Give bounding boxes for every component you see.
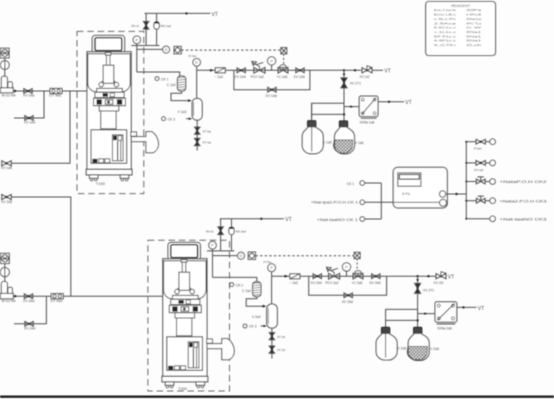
- svg-text:VT: VT: [405, 100, 411, 106]
- svg-text:C 1a2: C 1a2: [167, 83, 176, 87]
- vessel T200 mount ring: [175, 288, 195, 294]
- hand valve: [476, 179, 485, 184]
- valve XV2A8 bypass: [344, 293, 352, 298]
- pipe gauge drop to pot: [196, 66, 198, 98]
- pipe: [271, 340, 273, 346]
- flow meter FI202: [290, 274, 300, 279]
- terminal CK3 tap 2: [243, 324, 247, 328]
- svg-text:CK 1: CK 1: [236, 283, 244, 287]
- control valve C105 with actuator: [278, 68, 288, 74]
- pipe branch to flask V105: [312, 103, 344, 118]
- node vent header: [185, 12, 187, 14]
- svg-text:PCV 1a2: PCV 1a2: [251, 75, 265, 79]
- gauge PI202 on stem: [346, 271, 348, 276]
- svg-text:+Nat-tpa2-P.O.H CK 1: +Nat-tpa2-P.O.H CK 1: [311, 201, 358, 205]
- svg-text:XT Na: XT Na: [203, 129, 212, 133]
- svg-text:VT: VT: [285, 217, 291, 223]
- svg-text:P: P: [345, 264, 348, 269]
- pipe pot drain 2: [271, 328, 273, 332]
- pump P100: [0, 76, 13, 93]
- vessel T100 lower column: [99, 106, 119, 129]
- vessel T200 cabinet: [167, 337, 203, 371]
- vessel T200 lower column: [175, 313, 195, 336]
- rupture disc RD200: [229, 227, 234, 234]
- pipe drop from row2: [417, 276, 419, 283]
- pipe drop continues 2: [417, 294, 419, 328]
- vessel T100 cabinet: [91, 130, 127, 164]
- converter square PY200: [248, 252, 255, 259]
- node: [388, 101, 390, 103]
- pipe drain branch: [14, 91, 44, 118]
- pipe bypass loop: [234, 70, 310, 89]
- valve XV1A6: [296, 68, 304, 73]
- hose connector HC2: [51, 294, 63, 299]
- valve XT1B (lower): [195, 138, 200, 145]
- valve XT1A (upper): [195, 127, 200, 134]
- terminal CK1c: [360, 217, 365, 222]
- svg-text:CK 3: CK 3: [168, 117, 176, 121]
- terminal: [490, 216, 496, 222]
- transmitter PT100: [163, 46, 170, 53]
- svg-text:T200: T200: [178, 386, 188, 391]
- signal line (dashed) to PCV pilot: [181, 49, 280, 51]
- svg-text:FI Sw: FI Sw: [264, 260, 273, 264]
- svg-text:FI Sw: FI Sw: [189, 54, 198, 58]
- pipe to damper column 2: [213, 277, 257, 281]
- pipe flask manifold 2: [386, 319, 418, 321]
- svg-text:XT 2A: XT 2A: [277, 348, 285, 352]
- signal line (dashed) pilot drop 2: [356, 259, 358, 270]
- svg-text:+Nat-taaNO CK 1: +Nat-taaNO CK 1: [317, 218, 358, 222]
- vessel T200 stirrer shaft: [179, 260, 190, 291]
- svg-text:4L.cC.P.B.c: 4L.cC.P.B.c: [434, 43, 457, 47]
- pressure gauge PI2a: [0, 268, 9, 277]
- svg-text:V 2a6: V 2a6: [430, 347, 439, 351]
- panel port lower: [440, 199, 447, 206]
- node panel wire: [455, 193, 457, 195]
- vessel T200 body: [163, 259, 207, 377]
- gauge PI203: [268, 264, 276, 272]
- svg-text:XV 1a5: XV 1a5: [1, 166, 12, 170]
- vessel top platform: [131, 45, 159, 47]
- sampler unit ZI200: [435, 302, 457, 324]
- svg-text:T100: T100: [96, 181, 106, 186]
- svg-text:XV 2A4: XV 2A4: [24, 327, 35, 331]
- pipe riser to rupture disc: [156, 13, 158, 21]
- valve XV2A4: [313, 274, 321, 279]
- svg-text:XV 1A6: XV 1A6: [294, 75, 305, 79]
- flask V205: [376, 327, 397, 360]
- terminal CK1 tap: [155, 77, 159, 81]
- node vent header 2: [260, 218, 262, 220]
- terminal CK1b: [360, 200, 365, 205]
- flow arrow row2: [285, 275, 289, 278]
- pipe from XV2A5 down to T200 feed: [11, 197, 71, 296]
- vessel2 top platform: [207, 250, 234, 252]
- svg-text:V 2a5: V 2a5: [398, 347, 407, 351]
- pipe branch to sampler: [344, 106, 359, 108]
- valve XV1T1: [341, 78, 347, 88]
- svg-text:P: P: [135, 37, 138, 42]
- vessel T100 lower flange: [94, 98, 126, 106]
- pipe drain branch 2: [14, 296, 46, 324]
- gas line at y=162.9: [465, 162, 467, 164]
- vessel T200 exhaust duct: [207, 339, 235, 360]
- relief valve RV-2T: [218, 227, 223, 235]
- svg-text:RD 1a0: RD 1a0: [161, 24, 172, 28]
- terminal CK1a: [360, 181, 365, 186]
- svg-text:G: G: [239, 253, 242, 258]
- pilot square PY202: [354, 252, 360, 258]
- pipe sampler vent: [378, 101, 404, 103]
- node row1 branch: [343, 69, 345, 71]
- pipe sampler vent 2: [457, 306, 477, 308]
- svg-text:CK 3: CK 3: [249, 325, 257, 329]
- pipe drain end 2: [271, 353, 273, 358]
- svg-text:XV 2A8: XV 2A8: [342, 300, 353, 304]
- pressure regulator PR1 (square with circle): [1, 48, 10, 58]
- pipe riser 2: [231, 219, 233, 227]
- flow arrow into V103: [188, 99, 192, 102]
- vessel T200 flange stack: [171, 295, 200, 304]
- svg-text:CK 1: CK 1: [161, 77, 169, 81]
- node feed junction: [14, 90, 16, 92]
- pipe pot drain: [196, 120, 198, 127]
- pipe feed line to T200: [13, 295, 163, 297]
- gas bus vertical: [465, 142, 467, 219]
- valve XV1A5 (left edge upper): [2, 161, 12, 166]
- svg-text:XV 1t2: XV 1t2: [360, 75, 370, 79]
- pipe riser: [220, 219, 222, 227]
- svg-text:W-GJ NA: W-GJ NA: [2, 299, 17, 303]
- gas line at y=200.7: [465, 200, 467, 202]
- pipe: [196, 134, 198, 138]
- pressure sensor PI200: [209, 241, 217, 249]
- regulator PCV202 with lever: [329, 273, 340, 279]
- signal line (dashed) pilot drop: [283, 54, 285, 66]
- gas line at y=218.8: [465, 218, 467, 220]
- enclosure T100 (dashed boundary): [77, 31, 144, 193]
- wire panel to gas bus: [446, 193, 467, 195]
- svg-text:XV 2A4: XV 2A4: [311, 281, 322, 285]
- svg-text:VT: VT: [212, 12, 218, 18]
- terminal: [490, 198, 496, 204]
- pipe vent header T100: [145, 12, 211, 14]
- flow arrow into pot side: [189, 117, 192, 120]
- flask V206 (desiccant): [407, 327, 429, 360]
- pipe: [220, 235, 222, 251]
- svg-text:XV ta2: XV ta2: [474, 168, 484, 172]
- pipe: [231, 235, 233, 251]
- node flask branch 2: [416, 319, 418, 321]
- pipe vent header T200: [220, 218, 284, 220]
- pipe to VT 2: [445, 275, 448, 277]
- svg-text:XI/Na 2a6: XI/Na 2a6: [437, 326, 452, 330]
- pulse damper column C202: [253, 282, 261, 297]
- vessel T200 display screen: [168, 242, 200, 260]
- valve XV2T1: [415, 283, 421, 293]
- svg-text:C/T Na1: C/T Na1: [49, 94, 62, 98]
- flow arrow down: [343, 74, 346, 77]
- regulator PCV102 with lever: [254, 67, 265, 73]
- svg-text:XT Na: XT Na: [203, 141, 212, 145]
- svg-text:VT: VT: [478, 306, 484, 312]
- vessel T100 stirrer shaft: [103, 53, 114, 84]
- valve XV ta2: [476, 161, 485, 166]
- vessel T100 flange stack: [95, 88, 124, 97]
- node: [14, 295, 16, 297]
- hose connector HC1: [50, 88, 62, 93]
- pressure gauge PI1a: [0, 61, 9, 70]
- pipe to vent valve: [344, 69, 361, 71]
- valve XV1A8 bypass: [268, 87, 276, 92]
- wire CK1b inside panel: [393, 201, 439, 203]
- svg-text:XV 2a5: XV 2a5: [1, 200, 12, 204]
- pipe instrument drop 2: [212, 249, 214, 277]
- converter square PY100: [174, 46, 181, 53]
- svg-text:V 1a5: V 1a5: [323, 141, 332, 145]
- pipe drop from row1: [343, 70, 345, 77]
- valve XV1A3: [25, 116, 33, 121]
- pilot square PY102: [281, 48, 287, 54]
- svg-text:XV 1T1: XV 1T1: [350, 82, 361, 86]
- pipe flask manifold: [312, 113, 344, 115]
- svg-text:XV 2t2: XV 2t2: [434, 281, 444, 285]
- svg-text:VT: VT: [384, 69, 390, 75]
- flask V106 (desiccant): [333, 121, 354, 154]
- svg-text:P: P: [211, 243, 214, 248]
- svg-text:2Lcb: 2Lcb: [466, 43, 482, 47]
- svg-text:+C 1a5: +C 1a5: [277, 75, 288, 79]
- flow arrow down 2: [416, 279, 419, 282]
- transmitter PT200: [238, 252, 245, 259]
- pressure regulator PR2: [1, 253, 10, 263]
- svg-text:V 2a4: V 2a4: [252, 315, 261, 319]
- flow arrow into V204: [263, 305, 267, 308]
- node row2 branch: [416, 275, 418, 277]
- svg-text:C/T Na2: C/T Na2: [50, 299, 63, 303]
- node: [354, 69, 356, 71]
- terminal: [490, 179, 496, 185]
- svg-text:XT 2A: XT 2A: [277, 335, 285, 339]
- svg-text:V 1a3: V 1a3: [178, 110, 187, 114]
- pipe riser to relief valve: [145, 13, 147, 21]
- panel port upper: [439, 191, 445, 197]
- valve XV2A5 (left edge lower): [2, 194, 12, 199]
- flow arrow into pot side 2: [263, 325, 266, 328]
- svg-text:G: G: [165, 47, 168, 52]
- knock-out pot V204: [267, 304, 278, 328]
- svg-text:VT: VT: [448, 275, 454, 281]
- node: [427, 275, 429, 277]
- svg-text:P: P: [270, 58, 273, 63]
- flow arrow to sampler 2: [424, 312, 427, 315]
- valve XT2A: [269, 333, 274, 340]
- svg-text:PCV 2a2: PCV 2a2: [325, 281, 339, 285]
- svg-text:+NataP.O.H CK2: +NataP.O.H CK2: [500, 180, 547, 184]
- svg-text:+Nat-taaNO CK3: +Nat-taaNO CK3: [500, 217, 547, 221]
- pipe drop continues: [343, 89, 345, 123]
- pipe: [4, 264, 6, 282]
- terminal CK3 tap: [162, 117, 166, 121]
- valve XV1A1: [24, 89, 32, 94]
- pipe damper outlet: [171, 91, 189, 101]
- gas line at y=141.7: [465, 141, 467, 143]
- flow arrow row1: [210, 69, 214, 72]
- svg-text:XV 1A4: XV 1A4: [24, 121, 35, 125]
- pipe main line row1: [197, 69, 344, 71]
- flask V105: [302, 121, 323, 154]
- vessel T100 body: [87, 52, 131, 170]
- svg-text:V 1a6: V 1a6: [355, 141, 364, 145]
- svg-text:P: P: [270, 265, 273, 270]
- svg-text:REAGENT: REAGENT: [451, 4, 471, 8]
- svg-text:P: P: [195, 60, 198, 65]
- knock-out pot V103: [192, 98, 202, 120]
- wire CK bus vertical: [380, 183, 382, 219]
- gauge PI103: [193, 59, 201, 67]
- relief valve RV-1T: [143, 22, 148, 30]
- valve XT2B: [269, 346, 274, 353]
- pipe to VT: [372, 69, 383, 71]
- svg-text:P-tart: P-tart: [474, 147, 482, 151]
- svg-text:+Nata2-P.O.H CK3: +Nata2-P.O.H CK3: [500, 199, 547, 203]
- valve XV2A6: [372, 274, 380, 279]
- rupture disc RD100: [154, 22, 159, 29]
- pipe: [4, 58, 6, 76]
- flow arrow to sampler: [350, 105, 353, 108]
- svg-text:XV 2A6: XV 2A6: [369, 281, 380, 285]
- vent valve XV2T2: [436, 274, 446, 279]
- pipe: [145, 29, 147, 45]
- node: [462, 306, 464, 308]
- hand valve: [476, 198, 485, 203]
- pipe instrument branch 2: [213, 255, 238, 257]
- pipe to damper column: [137, 72, 180, 76]
- svg-text:C 2a2: C 2a2: [242, 289, 251, 293]
- vessel T100 display screen: [92, 35, 124, 53]
- svg-text:XV 2T1: XV 2T1: [423, 289, 434, 293]
- vessel T200 base and feet: [162, 376, 208, 388]
- svg-text:+C 2a5: +C 2a5: [352, 281, 363, 285]
- control valve C205 with actuator: [353, 273, 363, 279]
- pipe from XV1A5 to feed line: [11, 91, 70, 163]
- signal line (dashed) to pilot 2: [256, 255, 355, 257]
- vessel T100 mount ring: [99, 81, 119, 87]
- valve P-tart: [476, 139, 485, 144]
- pressure sensor PI100 on vessel: [133, 36, 141, 44]
- valve XV2A3: [25, 321, 33, 326]
- svg-text:XV 1A8: XV 1A8: [266, 94, 277, 98]
- flow meter FI102: [215, 68, 225, 73]
- pump P200: [0, 282, 13, 299]
- pipe instrument branch: [137, 48, 163, 50]
- vessel T100 base and feet: [86, 169, 132, 181]
- terminal: [490, 139, 496, 145]
- svg-text:XV 1Aa: XV 1Aa: [23, 94, 34, 98]
- terminal CK1 tap 2: [230, 283, 234, 287]
- pipe instrument drop: [136, 44, 138, 72]
- pulse damper column C102: [177, 76, 185, 91]
- pipe: [156, 29, 158, 45]
- vessel T200 lower flange: [169, 305, 201, 313]
- pipe drain end: [196, 146, 198, 151]
- gas line at y=181.5: [465, 181, 467, 183]
- svg-text:XV 1A4: XV 1A4: [235, 75, 246, 79]
- pipe to vent valve 2: [418, 275, 436, 277]
- terminal: [490, 160, 496, 166]
- svg-text:RV-2t: RV-2t: [206, 229, 214, 233]
- pipe feed line to T100: [13, 90, 87, 92]
- sampler unit ZI100: [359, 96, 378, 118]
- svg-text:~ 1a2: ~ 1a2: [215, 75, 224, 79]
- svg-text:S-Pd.: S-Pd.: [402, 192, 411, 196]
- vessel T100 exhaust duct: [131, 132, 159, 153]
- svg-text:XI/Na 1a6: XI/Na 1a6: [360, 120, 375, 124]
- pipe damper outlet 2: [246, 297, 263, 307]
- pipe main line row2: [272, 275, 418, 277]
- node flask branch: [343, 113, 345, 115]
- svg-text:CK 1: CK 1: [347, 182, 354, 186]
- wire CK1b to panel: [365, 201, 394, 203]
- svg-text:RD 2a0: RD 2a0: [236, 229, 247, 233]
- legend box: [426, 2, 496, 56]
- page bottom rule: [0, 396, 554, 398]
- svg-text:RV-1t: RV-1t: [132, 24, 140, 28]
- pipe branch to flask V205: [386, 309, 418, 328]
- wire CK1c: [365, 218, 382, 220]
- svg-text:W-GJ NA: W-GJ NA: [2, 94, 17, 98]
- pipe bypass loop 2: [309, 276, 387, 295]
- control panel S-PA: [393, 167, 447, 208]
- pipe into flask V105: [311, 103, 313, 121]
- valve XV2A1: [24, 294, 32, 299]
- vent valve XV1T2: [362, 68, 372, 73]
- pipe gauge drop to pot 2: [271, 272, 273, 304]
- enclosure T200 (dashed boundary): [148, 240, 230, 391]
- valve XV1A4: [237, 68, 245, 73]
- pipe branch to sampler 2: [418, 313, 435, 315]
- svg-text:~ 2a2: ~ 2a2: [290, 281, 299, 285]
- wire CK1a: [365, 182, 382, 184]
- gauge PI102 on stem: [271, 65, 273, 70]
- svg-text:XV 2Aa: XV 2Aa: [23, 299, 34, 303]
